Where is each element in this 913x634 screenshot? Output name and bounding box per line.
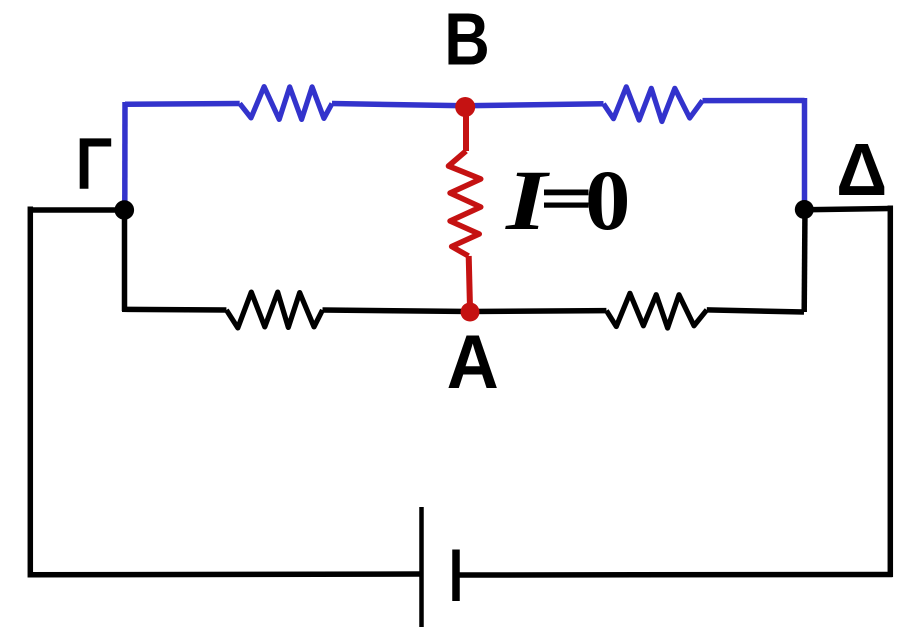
resistor middle (red, vertical) bbox=[449, 151, 481, 256]
svg-text:0: 0 bbox=[585, 153, 630, 248]
node Γ junction dot bbox=[115, 200, 135, 220]
node Δ junction dot bbox=[795, 200, 814, 219]
wire: red down to node A bbox=[469, 256, 470, 308]
wire: lower branch left segment bbox=[122, 307, 226, 313]
svg-text:Δ: Δ bbox=[836, 128, 887, 211]
svg-text:I: I bbox=[505, 153, 551, 248]
wire: blue top left horizontal bbox=[125, 101, 240, 107]
label B bbox=[444, 0, 490, 81]
wire: outer loop right vertical bbox=[888, 206, 894, 578]
wire: outer loop bottom right from battery bbox=[456, 572, 893, 578]
wire: lower branch from node A to right resistor bbox=[470, 308, 606, 314]
wire: blue top right rising segment bbox=[703, 98, 805, 104]
node A junction dot (red) bbox=[461, 303, 480, 322]
label Γ bbox=[76, 124, 113, 205]
node B junction dot (red) bbox=[455, 97, 475, 117]
svg-text:A: A bbox=[447, 319, 499, 404]
wire: outer loop left horizontal from node Γ to left edge bbox=[30, 207, 127, 213]
wire: lower branch right segment bbox=[707, 310, 804, 312]
wire: outer loop left vertical bbox=[28, 207, 34, 578]
resistor lower-right (black) bbox=[606, 293, 706, 328]
wire: outer loop bottom left to battery bbox=[28, 571, 421, 577]
wire: blue top middle through node B bbox=[332, 104, 604, 106]
battery negative plate (short) bbox=[452, 550, 460, 602]
svg-text:Γ: Γ bbox=[76, 124, 113, 205]
wire: right branch vertical up to node Δ bbox=[801, 208, 807, 312]
resistor upper-left (blue) bbox=[240, 87, 332, 120]
resistor lower-left (black) bbox=[226, 292, 322, 328]
label A bbox=[447, 319, 499, 404]
svg-text:B: B bbox=[444, 0, 490, 81]
wire: blue right vertical down to node Δ bbox=[802, 98, 808, 209]
label I=0 bbox=[505, 153, 630, 249]
wire: lower branch to node A bbox=[323, 310, 471, 312]
wire: blue from node Γ up bbox=[122, 102, 128, 211]
battery positive plate (long) bbox=[419, 507, 424, 627]
wire: node Γ down to lower branch bbox=[122, 210, 128, 311]
wire: red from node B down bbox=[463, 106, 469, 151]
label Δ bbox=[836, 128, 887, 211]
wire: top right horizontal to node Δ bbox=[805, 209, 893, 210]
resistor upper-right (blue) bbox=[604, 87, 703, 122]
